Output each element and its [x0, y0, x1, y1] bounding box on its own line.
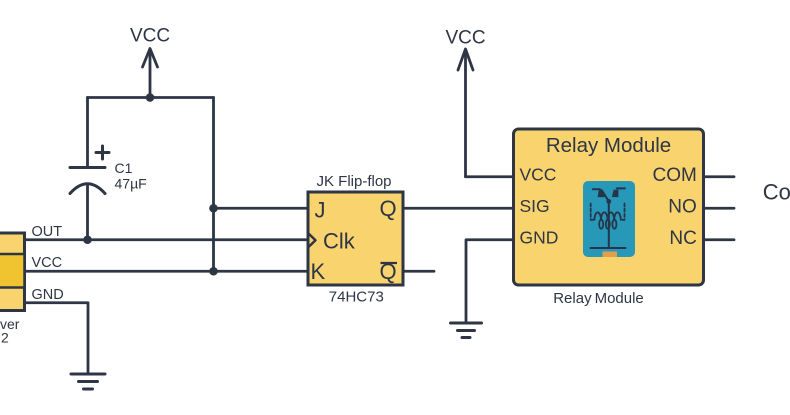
svg-text:VCC: VCC — [520, 164, 557, 184]
svg-text:GND: GND — [520, 227, 559, 247]
svg-text:COM: COM — [652, 165, 696, 186]
svg-text:SIG: SIG — [520, 196, 550, 216]
svg-text:Relay Module: Relay Module — [553, 290, 644, 307]
svg-text:Q: Q — [380, 196, 397, 221]
svg-text:Coil: Coil — [763, 179, 790, 204]
svg-text:Clk: Clk — [323, 228, 356, 253]
svg-text:VCC: VCC — [445, 27, 485, 48]
svg-text:GND: GND — [32, 287, 64, 303]
svg-text:VCC: VCC — [130, 25, 170, 46]
svg-text:VCC: VCC — [32, 255, 63, 271]
svg-text:NO: NO — [668, 196, 697, 217]
svg-text:C1: C1 — [115, 160, 133, 176]
svg-text:74HC73: 74HC73 — [329, 288, 384, 305]
svg-text:OUT: OUT — [32, 224, 63, 240]
svg-text:2: 2 — [1, 330, 9, 346]
svg-text:JK Flip-flop: JK Flip-flop — [316, 173, 391, 190]
svg-text:K: K — [311, 259, 326, 284]
svg-text:Relay Module: Relay Module — [546, 134, 671, 157]
svg-text:47µF: 47µF — [115, 175, 147, 191]
svg-text:J: J — [315, 197, 326, 222]
svg-text:NC: NC — [669, 228, 696, 249]
svg-text:Q: Q — [380, 259, 397, 284]
